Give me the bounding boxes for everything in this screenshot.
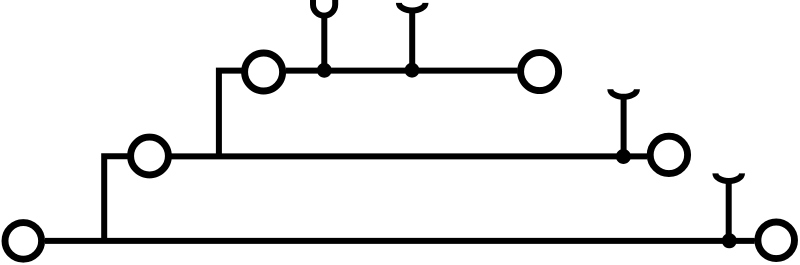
wire riser level2-to-level3 with corner (219, 71, 242, 157)
terminal circle bottom-left (5, 223, 42, 260)
junction node dot 1 (socket S1 to top wire) (317, 63, 332, 78)
junction node dot 4 (fork F3 to bottom wire) (722, 233, 737, 248)
terminal circle bottom-right (758, 222, 795, 259)
test tap fork F1 (top level) (399, 3, 426, 11)
wire stem of fork F1 (409, 8, 415, 70)
wire riser level1-to-level2 with corner (104, 156, 128, 241)
test tap fork F3 (bottom level) (715, 173, 742, 181)
wire middle level (172, 153, 648, 159)
wire stem of fork F3 (726, 179, 732, 241)
junction node dot 3 (fork F2 to middle wire) (616, 149, 631, 164)
test tap fork F2 (middle level) (610, 89, 637, 97)
wire bottom level (45, 238, 755, 244)
wire stem of socket S1 (321, 13, 327, 70)
wire top level (286, 68, 518, 74)
terminal circle middle-left (131, 137, 169, 175)
terminal circle top-right (521, 53, 559, 91)
junction node dot 2 (fork F1 to top wire) (405, 63, 420, 78)
terminal circle top-left (245, 53, 283, 91)
wire stem of fork F2 (621, 95, 627, 157)
terminal circle middle-right (650, 136, 687, 173)
test socket S1 (U shape, top level) (313, 0, 335, 16)
